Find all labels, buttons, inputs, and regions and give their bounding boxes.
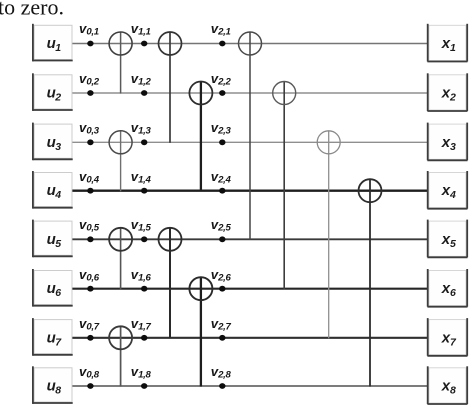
svg-text:4: 4 xyxy=(54,189,61,201)
wire vertical x=329: row 3 gate to row 7 xyxy=(328,131,330,338)
node v2,5 xyxy=(219,236,225,242)
xor gate U4 row 2 xyxy=(189,82,212,105)
output box x6 xyxy=(427,269,467,307)
xor gate U7 row 3 xyxy=(317,131,340,154)
label v2,1 xyxy=(211,22,231,37)
node v2,2 xyxy=(219,90,225,96)
node v0,7 xyxy=(87,335,93,341)
label v1,8 xyxy=(131,365,151,380)
wire vertical x=201: row 6 gate to row 8 xyxy=(200,277,202,386)
label v0,3 xyxy=(79,121,99,136)
label v1,1 xyxy=(131,22,151,37)
node v1,7 xyxy=(141,335,147,341)
node v2,3 xyxy=(219,139,225,145)
wire vertical x=201: row 2 gate to row 4 xyxy=(200,82,202,192)
output box x7 xyxy=(427,318,467,356)
svg-text:4: 4 xyxy=(449,189,456,201)
label v1,6 xyxy=(131,268,151,283)
node v2,1 xyxy=(219,41,225,47)
xor gate U8 row 4 xyxy=(359,179,382,202)
svg-text:6: 6 xyxy=(55,287,61,299)
input box u1 xyxy=(33,24,73,62)
svg-text:8: 8 xyxy=(55,385,61,397)
node v0,2 xyxy=(87,90,93,96)
wire row 2: u2 to x2 xyxy=(72,92,427,94)
wire vertical x=170: row 1 gate to row 3 xyxy=(169,32,171,143)
svg-text:3: 3 xyxy=(55,141,61,153)
output box x1 xyxy=(427,24,467,62)
label v0,5 xyxy=(79,218,99,233)
wire vertical x=121: row 3 gate to row 4 xyxy=(120,131,122,191)
wire row 8: u8 to x8 xyxy=(72,385,427,387)
label v0,7 xyxy=(79,317,99,332)
label v2,7 xyxy=(211,317,231,332)
label v0,8 xyxy=(79,365,99,380)
wire row 1: u1 to x1 xyxy=(72,43,427,45)
node v2,6 xyxy=(219,286,225,292)
xor gate U3 row 1 xyxy=(239,32,262,55)
input box u6 xyxy=(33,269,73,307)
label v1,7 xyxy=(131,317,151,332)
node v1,6 xyxy=(141,286,147,292)
input box u3 xyxy=(33,123,73,161)
node v0,6 xyxy=(87,286,93,292)
label v1,4 xyxy=(131,170,151,185)
svg-text:5: 5 xyxy=(55,238,61,250)
label v0,6 xyxy=(79,268,99,283)
node v1,3 xyxy=(141,139,147,145)
svg-text:3: 3 xyxy=(450,141,456,153)
label v1,5 xyxy=(131,218,151,233)
xor gate U1 row 1 xyxy=(109,32,132,55)
wire row 4: u4 to x4 xyxy=(72,189,427,191)
output box x5 xyxy=(427,220,467,258)
input box u7 xyxy=(33,318,73,356)
svg-text:1: 1 xyxy=(55,42,61,54)
node v1,1 xyxy=(141,41,147,47)
node v0,1 xyxy=(87,41,93,47)
label v2,2 xyxy=(211,72,231,87)
node v0,8 xyxy=(87,383,93,389)
node v0,4 xyxy=(87,188,93,194)
node v1,4 xyxy=(141,188,147,194)
output box x8 xyxy=(427,366,467,404)
wire row 3: u3 to x3 xyxy=(72,141,427,143)
xor gate U12 row 7 xyxy=(109,326,132,349)
input box u8 xyxy=(33,366,73,404)
input box u4 xyxy=(33,171,73,209)
label v2,5 xyxy=(211,218,231,233)
svg-text:2: 2 xyxy=(449,92,456,104)
wire vertical x=121: row 5 gate to row 6 xyxy=(120,228,122,289)
output box x3 xyxy=(427,123,467,161)
xor gate U10 row 5 xyxy=(159,228,182,251)
xor gate U5 row 2 xyxy=(273,82,296,105)
svg-text:to zero.: to zero. xyxy=(0,0,64,20)
wire vertical x=121: row 1 gate to row 2 xyxy=(120,32,122,94)
xor gate U9 row 5 xyxy=(109,228,132,251)
svg-text:5: 5 xyxy=(450,238,456,250)
label v1,3 xyxy=(131,121,151,136)
label v0,1 xyxy=(79,22,99,37)
label v0,4 xyxy=(79,170,99,185)
output box x4 xyxy=(427,171,467,209)
wire vertical x=170: row 5 gate to row 7 xyxy=(169,228,171,338)
label v2,3 xyxy=(211,121,231,136)
svg-text:6: 6 xyxy=(450,287,456,299)
wire vertical x=121: row 7 gate to row 8 xyxy=(120,326,122,386)
svg-text:8: 8 xyxy=(450,385,456,397)
output box x2 xyxy=(427,73,467,111)
label v2,4 xyxy=(211,170,231,185)
wire row 7: u7 to x7 xyxy=(72,337,427,339)
node v2,4 xyxy=(219,188,225,194)
node v2,8 xyxy=(219,383,225,389)
label v2,8 xyxy=(211,365,231,380)
node v0,3 xyxy=(87,139,93,145)
xor gate U2 row 1 xyxy=(159,32,182,55)
wire vertical x=284: row 2 gate to row 6 xyxy=(283,82,285,290)
node v1,8 xyxy=(141,383,147,389)
xor gate U6 row 3 xyxy=(109,131,132,154)
wire row 6: u6 to x6 xyxy=(72,288,427,290)
node v0,5 xyxy=(87,236,93,242)
svg-text:2: 2 xyxy=(54,92,61,104)
wire vertical x=250: row 1 gate to row 5 xyxy=(249,32,251,240)
node v2,7 xyxy=(219,335,225,341)
node v1,5 xyxy=(141,236,147,242)
label v1,2 xyxy=(131,72,151,87)
wire vertical x=370: row 4 gate to row 8 xyxy=(369,179,371,386)
node v1,2 xyxy=(141,90,147,96)
label v2,6 xyxy=(211,268,231,283)
svg-text:1: 1 xyxy=(450,42,456,54)
xor gate U11 row 6 xyxy=(189,277,212,300)
wire row 5: u5 to x5 xyxy=(72,238,427,240)
input box u5 xyxy=(33,220,73,258)
input box u2 xyxy=(33,73,73,111)
label v0,2 xyxy=(79,72,99,87)
